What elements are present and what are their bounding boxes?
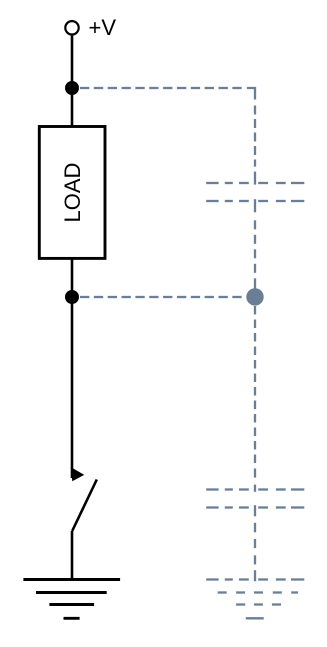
dashed ground line 1 (206, 578, 304, 580)
dashed ground line 3 (236, 603, 281, 605)
wire load to node B (71, 258, 74, 297)
svg-text:LOAD: LOAD (60, 163, 85, 223)
wire switch to ground (71, 531, 74, 580)
node C dot (246, 288, 263, 305)
switch arrowhead (71, 467, 85, 481)
svg-text:+V: +V (89, 15, 117, 40)
node B junction dot (65, 290, 79, 304)
terminal +V (65, 21, 78, 34)
dashed wire node A to corner (80, 87, 242, 89)
dashed wire node C to dashed ground (254, 306, 256, 581)
parasitic capacitor C2 bottom plate (206, 506, 304, 508)
parasitic capacitor C1 top plate (206, 182, 304, 184)
dashed wire corner (247, 88, 255, 100)
wire terminal to node A (71, 34, 74, 88)
dashed ground line 4 (246, 617, 264, 619)
dashed wire node B to node C (80, 296, 242, 298)
dashed wire corner to capacitor C1 (254, 106, 256, 289)
wire node B to switch (71, 297, 74, 478)
node A junction dot (65, 81, 79, 95)
ground (23, 580, 120, 619)
dashed ground line 2 (218, 591, 298, 593)
wire node A to load (71, 88, 74, 127)
switch blade (72, 480, 97, 532)
parasitic capacitor C2 top plate (206, 488, 304, 490)
parasitic capacitor C1 bottom plate (206, 200, 304, 202)
load box (39, 127, 105, 259)
